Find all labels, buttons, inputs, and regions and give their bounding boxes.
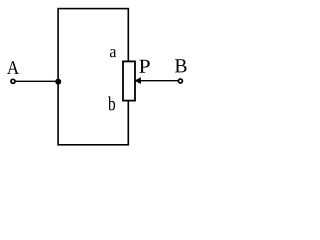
terminal B [178,79,182,83]
junction node on box left edge [55,79,61,85]
label A [7,61,19,74]
label P [139,60,149,73]
potentiometer P body [123,61,135,100]
label b (pot bottom terminal) [108,96,115,110]
terminal A [11,79,15,83]
wiper arrow head [134,77,141,84]
label B [175,59,187,72]
wire A to box [16,80,59,82]
box outline (device under test) [58,9,128,145]
wire B to wiper [140,80,178,82]
label a (pot top terminal) [110,49,116,57]
